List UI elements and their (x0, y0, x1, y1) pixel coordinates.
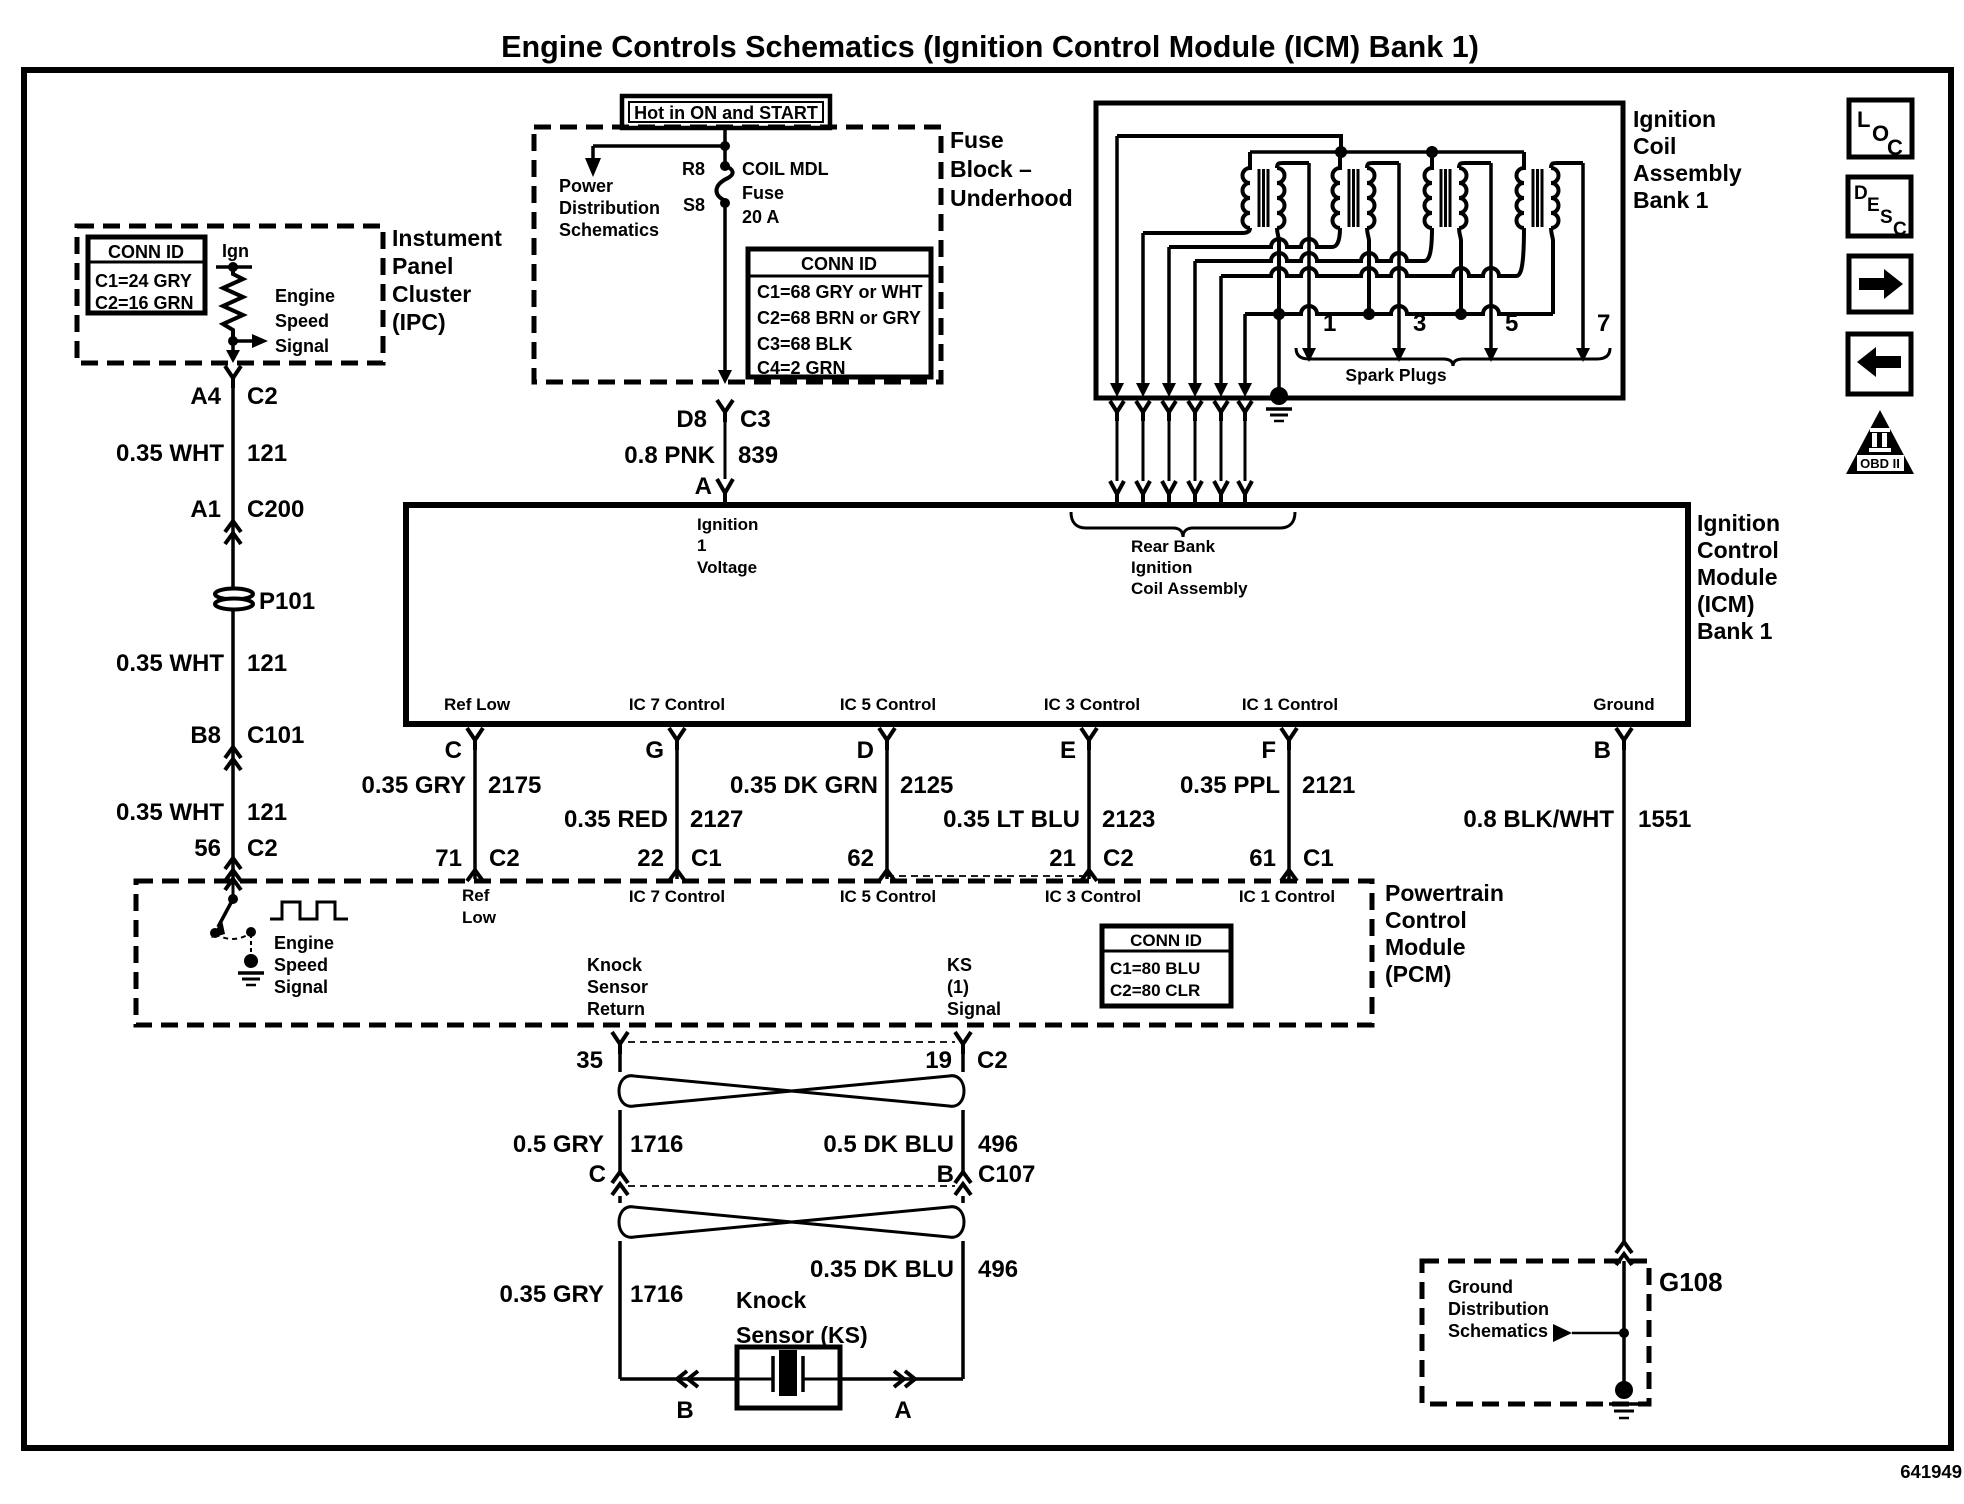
svg-text:C2: C2 (247, 835, 278, 862)
svg-text:Hot in ON and START: Hot in ON and START (634, 103, 818, 123)
ignition coil 3 (1425, 152, 1491, 314)
svg-text:C3=68 BLK: C3=68 BLK (757, 334, 853, 354)
wire down from fuse (723, 203, 727, 372)
twisted pair upper (618, 1054, 622, 1072)
coil 2 primary return wire (1332, 228, 1340, 247)
svg-text:Signal: Signal (274, 977, 328, 997)
svg-text:Schematics: Schematics (559, 220, 659, 240)
ICM pin G fork (669, 728, 685, 750)
knock sensor wires to sensor (620, 1377, 737, 1381)
svg-text:Knock: Knock (736, 1287, 807, 1313)
svg-text:G108: G108 (1659, 1267, 1723, 1297)
coil case ground (1270, 387, 1288, 405)
svg-text:L: L (1857, 107, 1870, 132)
svg-text:0.35 LT BLU: 0.35 LT BLU (943, 806, 1080, 833)
svg-text:0.35 RED: 0.35 RED (564, 806, 668, 833)
svg-text:(1): (1) (947, 977, 969, 997)
svg-text:Schematics: Schematics (1448, 1321, 1548, 1341)
svg-text:0.35 WHT: 0.35 WHT (116, 799, 224, 826)
svg-text:A4: A4 (190, 383, 221, 410)
wire 1551 (ground) (1622, 750, 1626, 1242)
thin dashed connector line C107 (628, 1185, 955, 1187)
svg-text:KS: KS (947, 955, 972, 975)
svg-text:Cluster: Cluster (392, 281, 471, 307)
svg-text:D8: D8 (676, 406, 707, 433)
square wave symbol (270, 902, 348, 919)
svg-text:C200: C200 (247, 496, 304, 523)
svg-text:C1: C1 (691, 845, 722, 872)
svg-text:COIL MDL: COIL MDL (742, 159, 829, 179)
thin dashed connector line D-E (887, 875, 1089, 877)
ground distribution dashed box G108 (1422, 1261, 1649, 1404)
svg-text:C4=2 GRN: C4=2 GRN (757, 358, 846, 378)
coil 4 primary return wire (1516, 228, 1524, 276)
KS piezo element (737, 1378, 773, 1381)
svg-text:Engine: Engine (274, 933, 334, 953)
svg-text:Rear Bank: Rear Bank (1131, 537, 1216, 556)
coil connector wire 4 (1193, 261, 1197, 383)
connector chevrons B (677, 1371, 698, 1387)
svg-text:C2: C2 (247, 383, 278, 410)
svg-text:IC 5 Control: IC 5 Control (840, 887, 936, 906)
svg-text:Powertrain: Powertrain (1385, 880, 1504, 906)
svg-text:Ground: Ground (1593, 695, 1654, 714)
svg-text:Ref Low: Ref Low (444, 695, 511, 714)
wire into G108 (1622, 1261, 1626, 1385)
svg-text:A: A (894, 1397, 911, 1424)
svg-text:Assembly: Assembly (1633, 160, 1742, 186)
svg-text:Panel: Panel (392, 253, 453, 279)
svg-text:121: 121 (247, 650, 287, 677)
svg-text:0.5 DK BLU: 0.5 DK BLU (823, 1131, 954, 1158)
svg-text:B: B (1594, 737, 1611, 764)
svg-text:19: 19 (925, 1047, 952, 1074)
svg-text:1716: 1716 (630, 1131, 683, 1158)
wire 2123 circuit (1087, 750, 1091, 879)
ignition control module (ICM) box (406, 505, 1688, 724)
spark plug wire 3 (1397, 163, 1401, 350)
svg-text:C: C (1893, 219, 1907, 240)
ignition coil assembly box (1096, 103, 1623, 398)
junction dot (228, 336, 238, 346)
svg-text:2123: 2123 (1102, 806, 1155, 833)
svg-text:A1: A1 (190, 496, 221, 523)
svg-text:Signal: Signal (275, 336, 329, 356)
svg-text:IC 7 Control: IC 7 Control (629, 887, 725, 906)
Hot in ON and START box (622, 96, 830, 128)
svg-text:121: 121 (247, 440, 287, 467)
svg-text:62: 62 (847, 845, 874, 872)
svg-text:0.35 DK GRN: 0.35 DK GRN (730, 772, 878, 799)
signal tap arrow (233, 339, 252, 343)
ground G108 symbol (1615, 1381, 1633, 1399)
connector chevrons at G108 (1616, 1242, 1632, 1265)
svg-text:2175: 2175 (488, 772, 541, 799)
svg-text:Module: Module (1385, 934, 1466, 960)
knock sensor (KS) box (737, 1347, 840, 1408)
svg-text:Fuse: Fuse (742, 183, 784, 203)
svg-text:Voltage: Voltage (697, 558, 757, 577)
svg-text:0.35 PPL: 0.35 PPL (1180, 772, 1280, 799)
ICM pin F fork (1281, 728, 1297, 750)
svg-text:C1: C1 (1303, 845, 1334, 872)
svg-text:1716: 1716 (630, 1281, 683, 1308)
wire to IPC edge with down arrow (231, 341, 235, 352)
IPC CONN ID table (88, 237, 205, 313)
svg-text:0.8 BLK/WHT: 0.8 BLK/WHT (1463, 806, 1614, 833)
svg-text:S: S (1880, 207, 1893, 228)
coil 3 primary return wire (1424, 228, 1432, 261)
coil connector wire 5 (1219, 276, 1223, 383)
svg-text:0.35 WHT: 0.35 WHT (116, 650, 224, 677)
svg-text:IC 7 Control: IC 7 Control (629, 695, 725, 714)
svg-text:1551: 1551 (1638, 806, 1691, 833)
svg-text:Sensor (KS): Sensor (KS) (736, 1322, 868, 1348)
svg-text:IC 1 Control: IC 1 Control (1239, 887, 1335, 906)
svg-text:CONN ID: CONN ID (801, 254, 877, 274)
svg-text:Signal: Signal (947, 999, 1001, 1019)
wire 121 segment 2 (231, 609, 235, 858)
wire 2125 circuit (885, 750, 889, 879)
svg-text:(ICM): (ICM) (1697, 591, 1754, 617)
svg-text:0.35 GRY: 0.35 GRY (362, 772, 467, 799)
svg-text:Sensor: Sensor (587, 977, 648, 997)
svg-text:Distribution: Distribution (559, 198, 660, 218)
svg-text:Power: Power (559, 176, 613, 196)
svg-text:Control: Control (1697, 537, 1779, 563)
svg-text:7: 7 (1597, 310, 1610, 337)
PCM CONN ID table (1102, 926, 1231, 1006)
svg-text:IC 3 Control: IC 3 Control (1045, 887, 1141, 906)
svg-text:B: B (676, 1397, 693, 1424)
svg-text:C2: C2 (977, 1047, 1008, 1074)
connector fork below IPC (225, 366, 241, 388)
svg-text:CONN ID: CONN ID (108, 242, 184, 262)
wire 2175 circuit (473, 750, 477, 879)
svg-text:C101: C101 (247, 722, 304, 749)
svg-text:D: D (857, 737, 874, 764)
ignition coil 1 (1243, 152, 1310, 314)
svg-text:C: C (445, 737, 462, 764)
svg-text:Module: Module (1697, 564, 1778, 590)
svg-text:E: E (1060, 737, 1076, 764)
svg-text:B8: B8 (190, 722, 221, 749)
svg-text:Low: Low (462, 908, 497, 927)
svg-text:C2=68 BRN or GRY: C2=68 BRN or GRY (757, 308, 921, 328)
svg-text:2121: 2121 (1302, 772, 1355, 799)
svg-text:A: A (695, 473, 712, 500)
icon LOC (1849, 100, 1912, 157)
ground distribution tap arrow (1553, 1324, 1572, 1342)
fuse block CONN ID table (748, 249, 931, 377)
svg-text:R8: R8 (682, 159, 705, 179)
connector chevrons A (894, 1371, 915, 1387)
coil 1 primary return wire (1143, 228, 1250, 233)
svg-text:Ignition: Ignition (1131, 558, 1192, 577)
svg-text:0.8 PNK: 0.8 PNK (624, 442, 715, 469)
ICM pin C fork (467, 728, 483, 750)
connector C2 chevrons at PCM (225, 858, 241, 881)
svg-text:CONN ID: CONN ID (1130, 931, 1202, 950)
ICM pin D fork (879, 728, 895, 750)
svg-text:C2: C2 (1103, 845, 1134, 872)
grommet P101 (215, 589, 253, 600)
coil connector wire 2 (1141, 233, 1145, 383)
svg-text:D: D (1854, 183, 1868, 204)
svg-text:Speed: Speed (274, 955, 328, 975)
svg-text:839: 839 (738, 442, 778, 469)
svg-text:Coil Assembly: Coil Assembly (1131, 579, 1248, 598)
svg-text:IC 3 Control: IC 3 Control (1044, 695, 1140, 714)
svg-text:Engine: Engine (275, 286, 335, 306)
PCM knock pins forks (612, 1032, 628, 1054)
svg-text:Ign: Ign (222, 241, 249, 261)
wire 2121 circuit (1287, 750, 1291, 879)
wire from hot box (723, 128, 727, 166)
svg-text:1: 1 (1323, 310, 1336, 337)
svg-text:P101: P101 (259, 588, 315, 615)
spark plug wire 5 (1489, 163, 1493, 350)
branch to power distribution (593, 144, 725, 148)
svg-text:C3: C3 (740, 406, 771, 433)
svg-text:C: C (1887, 135, 1903, 160)
svg-text:Instument: Instument (392, 225, 502, 251)
ground wire inside coil box (1277, 314, 1281, 396)
svg-text:Block –: Block – (950, 156, 1032, 182)
connector C101 chevrons (225, 747, 241, 770)
svg-text:E: E (1867, 195, 1880, 216)
connector fork pin A at ICM (717, 479, 733, 505)
svg-text:5: 5 (1505, 310, 1518, 337)
svg-text:1: 1 (697, 536, 706, 555)
svg-text:20 A: 20 A (742, 207, 779, 227)
twisted pair lower (618, 1196, 622, 1203)
svg-text:Ground: Ground (1448, 1277, 1513, 1297)
svg-text:C2: C2 (489, 845, 520, 872)
svg-text:61: 61 (1249, 845, 1276, 872)
svg-text:21: 21 (1049, 845, 1076, 872)
svg-text:Ignition: Ignition (697, 515, 758, 534)
svg-text:(IPC): (IPC) (392, 309, 446, 335)
spark plug wire 7 (1581, 163, 1585, 350)
svg-text:Fuse: Fuse (950, 127, 1004, 153)
svg-text:0.35 WHT: 0.35 WHT (116, 440, 224, 467)
svg-text:C1=24 GRY: C1=24 GRY (95, 271, 192, 291)
wire 121 segment 1 (231, 386, 235, 588)
svg-text:3: 3 (1413, 310, 1426, 337)
ICM pin B fork (1616, 728, 1632, 750)
svg-text:56: 56 (194, 835, 221, 862)
bus wire B+ top (1117, 136, 1341, 152)
bus wire primary feed (1250, 150, 1524, 154)
instrument panel cluster (IPC) dashed box (77, 226, 383, 363)
thin dashed connector line at PCM (628, 1041, 955, 1043)
svg-text:0.5 GRY: 0.5 GRY (513, 1131, 604, 1158)
svg-text:C2=16 GRN: C2=16 GRN (95, 293, 194, 313)
svg-text:496: 496 (978, 1131, 1018, 1158)
fuse block underhood dashed box (534, 127, 941, 382)
svg-text:Engine Controls Schematics (Ig: Engine Controls Schematics (Ignition Con… (501, 30, 1479, 64)
secondary common ground bus (1245, 306, 1553, 314)
svg-text:Ignition: Ignition (1633, 106, 1716, 132)
svg-text:35: 35 (576, 1047, 603, 1074)
svg-text:Ignition: Ignition (1697, 510, 1780, 536)
connector fork D8/C3 (717, 400, 733, 422)
icon DESC (1848, 177, 1911, 236)
svg-text:Ref: Ref (462, 886, 490, 905)
svg-text:Coil: Coil (1633, 133, 1676, 159)
coil connector wire 3 (1167, 247, 1171, 383)
svg-text:IC 1 Control: IC 1 Control (1242, 695, 1338, 714)
svg-text:121: 121 (247, 799, 287, 826)
icon arrow left (1848, 334, 1911, 394)
wire 839 (724, 422, 727, 479)
icon OBD II triangle (1846, 410, 1914, 474)
svg-text:2127: 2127 (690, 806, 743, 833)
svg-text:Control: Control (1385, 907, 1467, 933)
connector C107 chevrons (612, 1172, 628, 1195)
icon arrow right (1849, 256, 1911, 312)
svg-text:Return: Return (587, 999, 645, 1019)
svg-text:Distribution: Distribution (1448, 1299, 1549, 1319)
wire 2127 circuit (675, 750, 679, 879)
brace rear bank (1071, 512, 1295, 537)
svg-text:G: G (645, 737, 664, 764)
svg-text:(PCM): (PCM) (1385, 961, 1451, 987)
coil connector wire 1 (1115, 136, 1119, 383)
junction dot (720, 141, 730, 151)
powertrain control module (PCM) dashed box (136, 881, 1372, 1025)
connector C200 chevrons (225, 521, 241, 544)
svg-text:0.35 GRY: 0.35 GRY (500, 1281, 605, 1308)
svg-text:B: B (937, 1161, 954, 1188)
engine speed signal switch in PCM (225, 879, 241, 890)
svg-text:C: C (589, 1161, 606, 1188)
svg-text:2125: 2125 (900, 772, 953, 799)
svg-text:C2=80 CLR: C2=80 CLR (1110, 981, 1200, 1000)
coil connector wire 6 (1243, 314, 1247, 383)
svg-text:Bank 1: Bank 1 (1633, 187, 1709, 213)
svg-text:71: 71 (435, 845, 462, 872)
Ign terminal (216, 265, 252, 269)
svg-text:S8: S8 (683, 195, 705, 215)
svg-text:641949: 641949 (1900, 1461, 1962, 1482)
spark plug wire 1 (1307, 163, 1311, 350)
svg-text:C107: C107 (978, 1161, 1035, 1188)
svg-text:Underhood: Underhood (950, 185, 1073, 211)
svg-text:C1=68 GRY or WHT: C1=68 GRY or WHT (757, 282, 923, 302)
svg-text:F: F (1261, 737, 1276, 764)
svg-text:Bank 1: Bank 1 (1697, 618, 1773, 644)
spark plugs brace (1296, 348, 1610, 366)
ICM pin E fork (1081, 728, 1097, 750)
svg-text:22: 22 (637, 845, 664, 872)
svg-text:0.35 DK BLU: 0.35 DK BLU (810, 1256, 954, 1283)
ignition coil 2 (1333, 152, 1400, 314)
resistor (engine speed signal) (223, 267, 243, 341)
svg-text:IC 5 Control: IC 5 Control (840, 695, 936, 714)
svg-text:496: 496 (978, 1256, 1018, 1283)
svg-text:C1=80 BLU: C1=80 BLU (1110, 959, 1200, 978)
fuse COIL MDL 20A (R8/S8) (720, 161, 730, 171)
svg-text:Spark Plugs: Spark Plugs (1345, 365, 1446, 385)
svg-text:OBD II: OBD II (1860, 456, 1900, 471)
svg-text:Knock: Knock (587, 955, 643, 975)
svg-text:Speed: Speed (275, 311, 329, 331)
ignition coil 4 (1517, 152, 1583, 314)
